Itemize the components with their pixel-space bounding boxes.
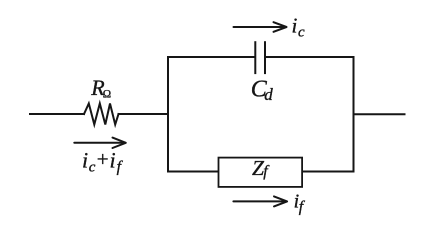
svg-text:d: d <box>264 85 273 104</box>
svg-text:Ω: Ω <box>103 88 111 100</box>
svg-text:i: i <box>110 148 116 173</box>
svg-text:c: c <box>89 160 96 176</box>
svg-text:f: f <box>263 163 270 180</box>
svg-text:i: i <box>82 148 88 173</box>
svg-text:+: + <box>97 147 109 171</box>
svg-text:i: i <box>292 14 298 38</box>
svg-text:c: c <box>298 24 305 40</box>
svg-text:f: f <box>117 159 124 176</box>
svg-text:f: f <box>299 199 306 216</box>
